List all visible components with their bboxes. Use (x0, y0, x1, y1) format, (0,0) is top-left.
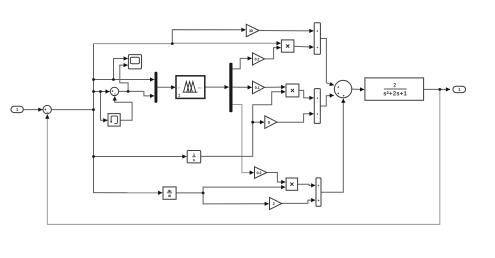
wire mux output to fuzzy controller (158, 86, 176, 88)
wire branch down to relay input (101, 92, 108, 121)
node trunk-sum1 junction (92, 108, 95, 111)
adder R3 (316, 178, 321, 206)
derivative du/dt (163, 187, 176, 199)
product P3 (286, 178, 298, 190)
node gain10 branch junction (171, 42, 174, 45)
sum S2 (110, 87, 118, 95)
wire error run y=79 to mux input 1 (93, 79, 154, 81)
gain G2 (270, 197, 282, 209)
gain G5 (265, 116, 277, 129)
gain G02b (255, 167, 267, 179)
wire adder R2 output to big sum input 2 (320, 95, 334, 106)
wire adder R1 output down to big sum (320, 39, 334, 86)
node scope branch junction (112, 78, 115, 81)
transfer function block (365, 78, 424, 100)
product P2 (286, 84, 299, 97)
node trunk-integrator junction (92, 155, 95, 158)
wire feedback loop to sum1 bottom (47, 89, 440, 224)
wire transfer function output to outport (424, 88, 450, 90)
wire sum2 output branch to scope input 2 (120, 65, 128, 91)
gain G10 (246, 24, 259, 36)
node integrator-gain5 junction (251, 121, 254, 124)
node relay branch junction (99, 90, 102, 93)
wire inport to sum1 (23, 109, 42, 111)
wire relay output loop to sum2 bottom (115, 96, 132, 120)
node trunk-sum2 junction (92, 90, 95, 93)
node feedback junction (438, 88, 441, 91)
wire integrator output up to product P2 input 2 (201, 92, 286, 157)
wire sum2 output to mux input 2 (119, 91, 154, 96)
mux bar (155, 72, 158, 103)
outport 1 (453, 86, 466, 92)
wire sum1 output to trunk (51, 109, 93, 111)
product P1 (281, 40, 294, 52)
wire gain G02a output to product P1 input 2 (265, 48, 281, 59)
wire trunk to sum2 left input (93, 91, 109, 93)
wire demux output 1 to gain G02a (233, 58, 252, 69)
wire demux output 3 to gain G02b (233, 105, 254, 173)
wire product P1 output to adder R1 input 2 (294, 45, 314, 48)
wire product P2 output to adder R2 input 1 (299, 90, 314, 98)
wire product P3 output to adder R3 input 1 (298, 184, 316, 185)
wire gain G02b output to product P3 input 1 (267, 173, 285, 183)
fuzzy logic controller (176, 76, 205, 99)
wire branch to scope input 1 (114, 59, 128, 80)
wire adder R3 output up to big sum bottom (321, 99, 343, 193)
wire trunk to integrator input (93, 156, 186, 158)
wire derivative output to product P3 input 2 (176, 187, 285, 193)
wire trunk to derivative input (93, 192, 162, 194)
wire branch down to gain G2 input (203, 193, 269, 204)
inport 1 (11, 106, 23, 112)
node derivative output junction (202, 192, 205, 195)
scope block (128, 55, 141, 69)
adder R1 (314, 23, 320, 55)
integrator 1/s (187, 151, 201, 163)
wire fuzzy controller output to demux (205, 86, 229, 88)
node trunk-error junction (92, 78, 95, 81)
wire gain G10 output to adder R1 input 1 (259, 30, 314, 32)
wire gain G5 output to adder R2 input 2 (277, 114, 314, 122)
wire branch up to gain G10 (172, 30, 245, 44)
wire top long run y=43 to product P1 input 1 (93, 42, 281, 44)
gain G01 (253, 81, 265, 94)
demux bar (229, 63, 232, 113)
node sum2 output junction (127, 90, 130, 93)
wire demux output 2 to gain G01 (233, 86, 252, 88)
wire big sum output to transfer function (352, 88, 364, 90)
wire gain G2 output to adder R3 input 2 (282, 200, 316, 203)
wire branch to gain G5 input (253, 121, 264, 123)
sum S1 (43, 105, 51, 113)
wire gain G01 output to product P2 input 1 (265, 86, 286, 88)
adder R2 (314, 89, 320, 124)
wire vertical trunk (93, 44, 95, 193)
relay block (108, 114, 120, 127)
big sum S3 (334, 80, 351, 97)
gain G02a (253, 53, 265, 65)
